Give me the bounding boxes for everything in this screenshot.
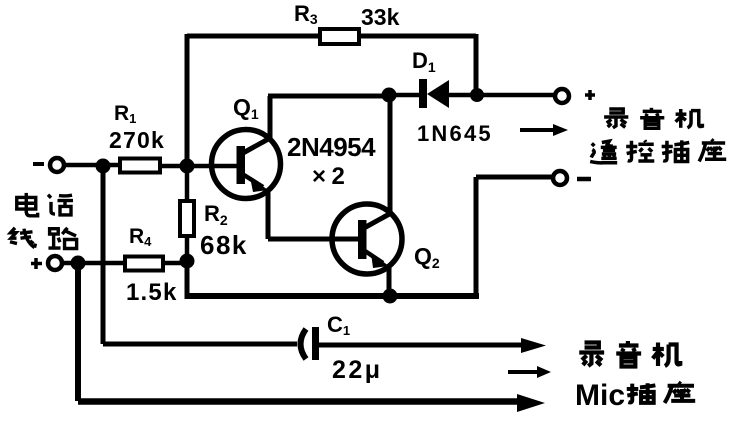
wire: plus node down to mic ground row [75,263,81,401]
text: 录音机 (recorder) top [604,108,702,128]
text: 电话 (telephone) [17,193,73,216]
label + mark [585,90,595,100]
svg-text:R2: R2 [204,201,228,228]
wire: R1 node down to C1 row [101,166,106,344]
svg-text:Q1: Q1 [233,94,259,122]
wire: R4 to R2 node [163,261,187,266]
wire: C1 row left segment [103,342,297,347]
wire: Q2 emitter down to bottom rail [387,266,392,296]
resistor R2 (vertical) with leads [185,166,190,201]
svg-text:R1: R1 [114,102,136,126]
svg-text:2N4954: 2N4954 [287,132,376,162]
svg-text:68k: 68k [200,230,248,260]
wire: D1 node down to Q2 collector [388,95,393,213]
wire: diode to plus terminal [449,93,554,98]
node: Q2 emitter junction dot [383,289,398,304]
arrow: mic direction [508,370,540,374]
wire: left vertical from top rail to Q1 base node [185,34,190,166]
diode D1 [419,79,449,108]
svg-text:D1: D1 [412,48,436,75]
node: D1 anode junction dot [382,88,397,103]
resistor R1 [120,159,160,173]
text: Mic插座 (mic socket) [575,379,695,412]
svg-text:C1: C1 [327,312,350,338]
node: plus junction dot [71,256,86,271]
capacitor C1 [301,327,320,360]
terminal: recorder remote plus [555,89,569,103]
arrow: remote control direction [520,128,556,132]
wire: minus terminal to R1 [64,163,120,168]
text: 线路 (line) [10,228,77,249]
wire: Q1 collector up and right to D1 node [268,96,389,141]
transistor Q1 [212,130,281,199]
terminal: telephone line minus [33,162,44,166]
node: junction dot below top-rail corner [470,88,484,102]
terminal: telephone line plus [31,258,42,269]
label - mark [577,177,591,182]
svg-text:Mic: Mic [575,379,625,412]
svg-text:Q2: Q2 [414,243,440,271]
svg-text:1.5k: 1.5k [126,279,178,306]
wire: bottom rail up to minus terminal [476,177,553,298]
node: Q1 base node dot [180,159,195,174]
wire: plus to R4 [62,261,125,266]
svg-text:22μ: 22μ [332,356,383,384]
text: 遥控插座 (remote control socket) [590,139,726,162]
wire: top-right corner down to D1 output node [474,34,479,95]
wire: bottom rail [185,293,480,299]
svg-text:×2: ×2 [312,163,350,190]
wire: dot to diode [389,93,419,98]
text: 录音机 (recorder) bottom [579,341,680,367]
svg-text:270k: 270k [109,127,165,153]
svg-text:R4: R4 [129,225,152,249]
svg-text:33k: 33k [361,4,400,30]
wire: C1 row right segment with arrow [319,343,525,348]
terminal: recorder remote minus [553,171,567,185]
resistor R3 [320,29,359,44]
wire: node down to bottom rail [185,261,190,298]
resistor R4 [125,257,163,271]
node: R2/R4 junction dot [180,254,195,269]
wire: top rail right segment [359,34,476,39]
wire: top rail left segment [187,34,320,39]
wire: R1 to Q1 base [160,164,240,169]
svg-text:1N645: 1N645 [417,121,493,146]
wire: Q1 emitter down and right to Q2 base [268,190,362,239]
node: junction dot left of R1 [96,159,111,174]
svg-text:R3: R3 [294,1,318,27]
transistor Q2 [332,204,402,274]
wire: mic ground row with arrow [78,398,522,405]
